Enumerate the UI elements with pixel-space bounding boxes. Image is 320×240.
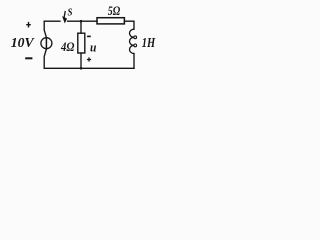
wire top-right segment with corner	[124, 21, 134, 29]
svg-text:10V: 10V	[11, 36, 35, 51]
svg-text:u: u	[90, 40, 96, 54]
resistor 5-ohm box	[97, 18, 124, 24]
inductor 1H coil	[130, 29, 135, 53]
wire right rail below inductor	[133, 54, 135, 69]
svg-text:S: S	[68, 8, 73, 19]
label + of source	[26, 22, 31, 28]
label minus of source	[25, 57, 32, 59]
wire middle branch upper	[80, 21, 82, 33]
wire middle branch lower	[80, 53, 82, 68]
voltage source circle	[41, 38, 52, 49]
wire top-left segment	[44, 20, 60, 22]
label plus of u	[87, 57, 91, 61]
junction dot top	[80, 20, 83, 23]
inductor cusp curl upper	[134, 36, 137, 39]
wire left rail lower	[44, 49, 46, 68]
svg-text:5Ω: 5Ω	[108, 3, 121, 18]
wire left rail upper	[44, 21, 46, 37]
svg-text:4Ω: 4Ω	[60, 39, 74, 54]
wire top middle segment	[68, 20, 98, 22]
junction dot bottom	[80, 67, 83, 70]
svg-text:1H: 1H	[142, 35, 156, 50]
voltage source internal bar	[45, 37, 47, 50]
label minus of u	[87, 35, 91, 37]
wire bottom	[44, 67, 134, 69]
inductor cusp curl lower	[134, 44, 137, 47]
resistor 4-ohm box	[78, 33, 85, 53]
switch S blade with closing arrow	[63, 11, 67, 22]
